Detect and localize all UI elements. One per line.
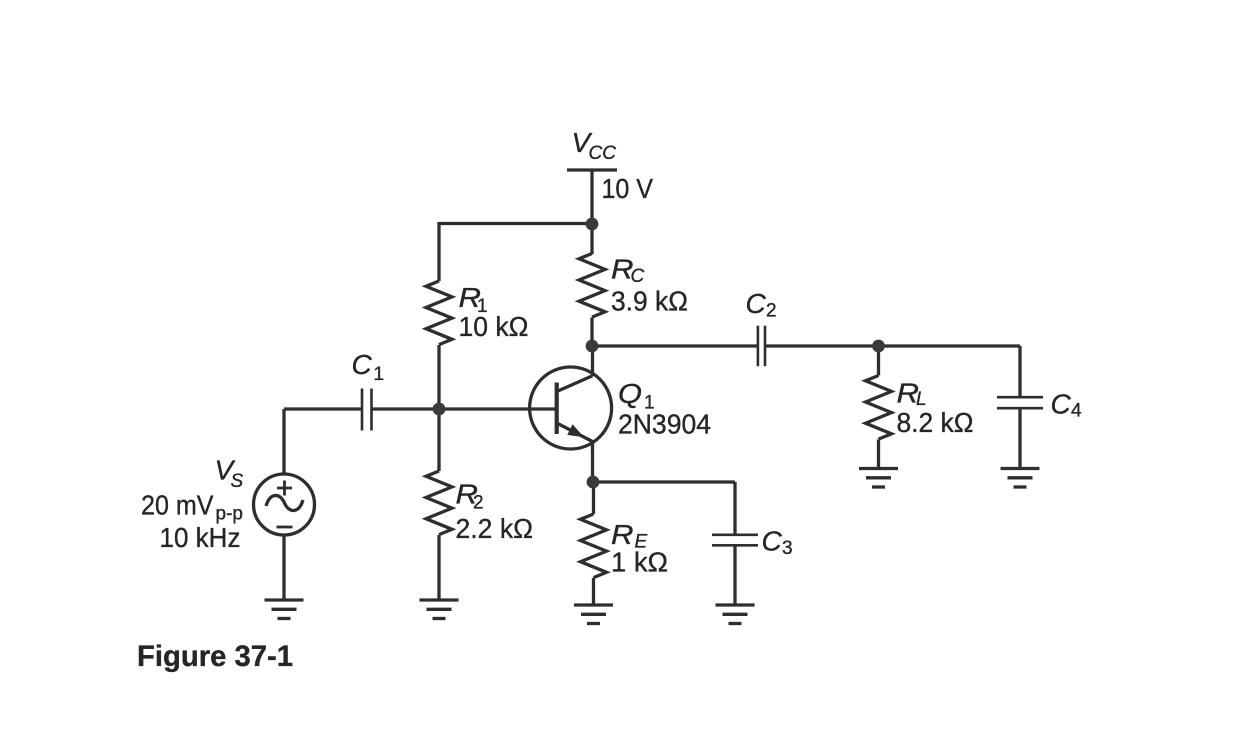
svg-text:3: 3 (782, 538, 793, 559)
svg-text:4: 4 (1071, 401, 1082, 422)
svg-text:8.2 kΩ: 8.2 kΩ (897, 407, 974, 438)
svg-text:1 kΩ: 1 kΩ (611, 547, 668, 578)
svg-text:10 V: 10 V (602, 173, 654, 204)
svg-text:2N3904: 2N3904 (618, 409, 711, 440)
svg-text:20 mV: 20 mV (141, 490, 214, 521)
svg-text:Figure 37-1: Figure 37-1 (137, 640, 293, 673)
svg-text:C: C (631, 266, 645, 287)
svg-text:Q: Q (618, 378, 642, 409)
svg-text:3.9 kΩ: 3.9 kΩ (611, 286, 688, 317)
svg-text:2: 2 (766, 301, 777, 322)
svg-text:10 kHz: 10 kHz (160, 522, 241, 553)
svg-text:10 kΩ: 10 kΩ (459, 311, 529, 342)
svg-text:2: 2 (473, 493, 484, 514)
svg-text:C: C (352, 349, 373, 380)
svg-text:C: C (762, 526, 783, 557)
svg-text:2.2 kΩ: 2.2 kΩ (456, 513, 534, 544)
svg-text:C: C (746, 288, 767, 319)
svg-text:CC: CC (589, 143, 617, 164)
svg-text:R: R (611, 519, 634, 550)
svg-text:1: 1 (374, 364, 385, 385)
svg-text:S: S (231, 471, 244, 492)
svg-text:C: C (1051, 389, 1072, 420)
